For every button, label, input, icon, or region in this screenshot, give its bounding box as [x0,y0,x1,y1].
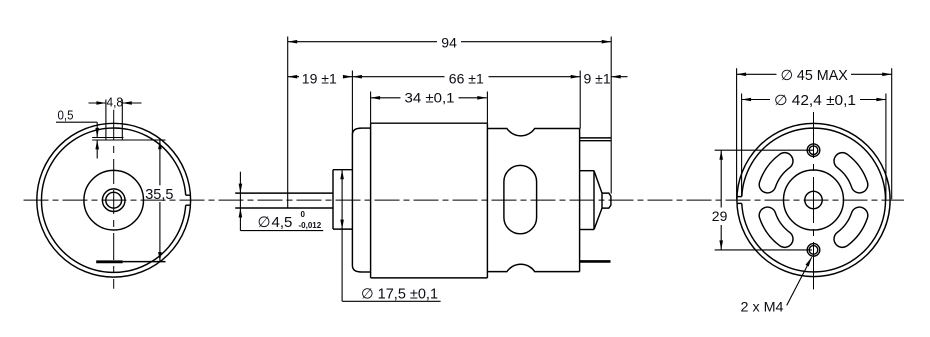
tab inner bottom line [92,137,123,139]
tab right line [121,100,123,140]
0.5 lower arrowhead [95,140,99,150]
seam tick top [186,194,191,196]
outer circle [737,123,890,276]
horizontal centerline [24,199,905,201]
arrow 35.5 top [158,140,162,150]
extension 66 right [579,71,581,129]
dim 4.8 right tail [122,102,141,104]
can front step line [370,123,372,278]
0.5 upper arrow line [96,122,98,137]
svg-text:4,8: 4,8 [107,95,124,110]
dim 35.5 line lower [159,202,161,262]
front fillet bottom [352,266,361,273]
front fillet top [352,128,361,134]
outer circle [37,123,191,277]
bearing ring inner [106,192,122,208]
arrow 29 top [719,150,723,160]
vertical centerline [113,110,115,289]
dim 19 line [288,76,353,78]
dim 29 line [720,150,722,250]
extension 34 left [370,92,372,124]
svg-text:0: 0 [301,210,306,219]
dim 34 line [371,97,487,99]
arrow 29 bottom [719,240,723,250]
extension 34 right [486,92,488,124]
inner circle with seam gap at right [41,128,185,272]
dim 4.5 underline [240,230,323,232]
arrow 45 left [737,73,747,77]
arrow 42.4 left [742,98,752,102]
bearing ring outer [102,189,125,212]
slot SE [834,207,868,247]
svg-text:∅: ∅ [258,214,271,231]
arrow 35.5 bottom [158,252,162,262]
rear bearing boss bottom [580,229,594,231]
tab left line [105,100,107,140]
endbell rear face [579,129,581,272]
arrow 19 right [343,75,353,79]
0.5 upper arrowhead [95,128,99,138]
dim 45 ext left [736,68,738,199]
dim 9 outside arrow tail [611,76,627,78]
arrow 34 right [477,96,487,100]
rear tab bottom line [580,140,612,142]
shaft top line [235,192,333,194]
crimp bottom edge [362,271,371,273]
boss circle [784,170,844,230]
2xM4 leader [787,257,812,305]
arrow 4.8 right [122,101,132,105]
dim 45 line [737,73,892,75]
tab outer bottom line / 35.5 top reference [92,139,165,141]
svg-text:∅ 45 MAX: ∅ 45 MAX [781,68,849,84]
screw hole top inner [809,146,818,155]
svg-text:4,5: 4,5 [272,214,293,231]
arrow 4.8 left [96,101,106,105]
svg-text:9 ±1: 9 ±1 [584,70,611,86]
extension above can front face [351,71,353,135]
svg-text:34 ±0,1: 34 ±0,1 [405,89,455,105]
arrow 94 left [288,40,298,44]
can bottom edge [371,277,488,279]
can front face [351,135,353,266]
arrow 66 left [352,75,362,79]
dim 35.5 line upper [159,140,161,186]
svg-text:35,5: 35,5 [145,187,173,203]
svg-text:∅ 42,4 ±0,1: ∅ 42,4 ±0,1 [774,93,856,109]
arrow 42.4 right [876,98,886,102]
35.5 bottom reference line [123,261,166,263]
0.5 lower arrow line [96,140,98,159]
endbell bottom edge with scallop [487,264,579,271]
dim 4.5 vertical line [239,172,241,231]
front boss left face [332,170,334,229]
arrow 19 left [288,75,298,79]
rear shaft stub [602,193,611,208]
inner circle with seam gap at left [742,128,886,272]
seam tick top [737,196,742,198]
can top edge [371,122,488,124]
arrow 4.5 bottom [239,208,243,218]
dim 66 line [352,76,580,78]
rear bearing boss top [580,170,594,172]
front boss bottom [333,228,352,230]
slot SW [759,207,793,247]
dim 4.8 left tail [89,102,106,104]
shaft circle [805,191,822,208]
svg-text:∅ 17,5 ±0,1: ∅ 17,5 ±0,1 [361,287,438,303]
boss circle [84,170,144,230]
rear tab top line [580,137,612,139]
rear cone slant top [594,171,602,193]
0.5 underline leader [56,121,97,123]
shaft bottom line [235,207,333,209]
arrow 34 left [371,96,381,100]
arrow 17.5 top [340,170,344,180]
rear terminal thick [580,260,611,263]
dim 94 line [288,41,612,43]
dimension extension line left (94/19) [287,37,289,209]
svg-text:94: 94 [441,34,457,50]
screw hole top thread [807,144,820,157]
dim 17.5 vertical line [341,170,343,302]
2xM4 arrowhead [806,257,812,266]
dim 45 ext right [891,68,893,199]
svg-text:66 ±1: 66 ±1 [449,70,484,86]
dim 42.4 line [742,99,886,101]
vertical centerline [813,112,815,289]
extension 94/9 right [610,37,612,194]
arrow 17.5 bottom [340,220,344,230]
svg-text:0,5: 0,5 [58,108,74,122]
dim 29 ext bottom [715,249,812,251]
rear cone slant bottom [594,208,602,229]
arrow 66 right [571,75,581,79]
screw hole bottom thread [807,244,820,257]
arrow 94 right [602,40,612,44]
rear bearing boss base [593,171,595,230]
arrow 45 right [882,73,892,77]
slot NE [834,153,868,193]
dim 42.4 ext right [885,94,887,200]
arrow 4.5 top [239,184,243,194]
svg-text:19 ±1: 19 ±1 [302,70,337,86]
slot NW [759,153,793,193]
screw hole bottom inner [809,246,818,255]
endbell top edge with scallop [487,129,579,136]
front boss top [333,169,352,171]
arrow 9 right outside [611,75,621,79]
can rear joint line [486,123,488,278]
crimp top edge [362,127,371,129]
bottom tab thick tick [96,260,123,263]
seam tick bottom [186,204,191,206]
dim 17.5 underline [342,300,441,302]
dim 29 ext top [715,149,814,151]
seam tick bottom [737,202,742,204]
svg-text:2 x M4: 2 x M4 [741,298,784,314]
svg-text:-0,012: -0,012 [299,221,322,230]
endbell vent slot [504,165,537,233]
svg-text:29: 29 [712,208,728,224]
dim 42.4 ext left [741,94,743,197]
